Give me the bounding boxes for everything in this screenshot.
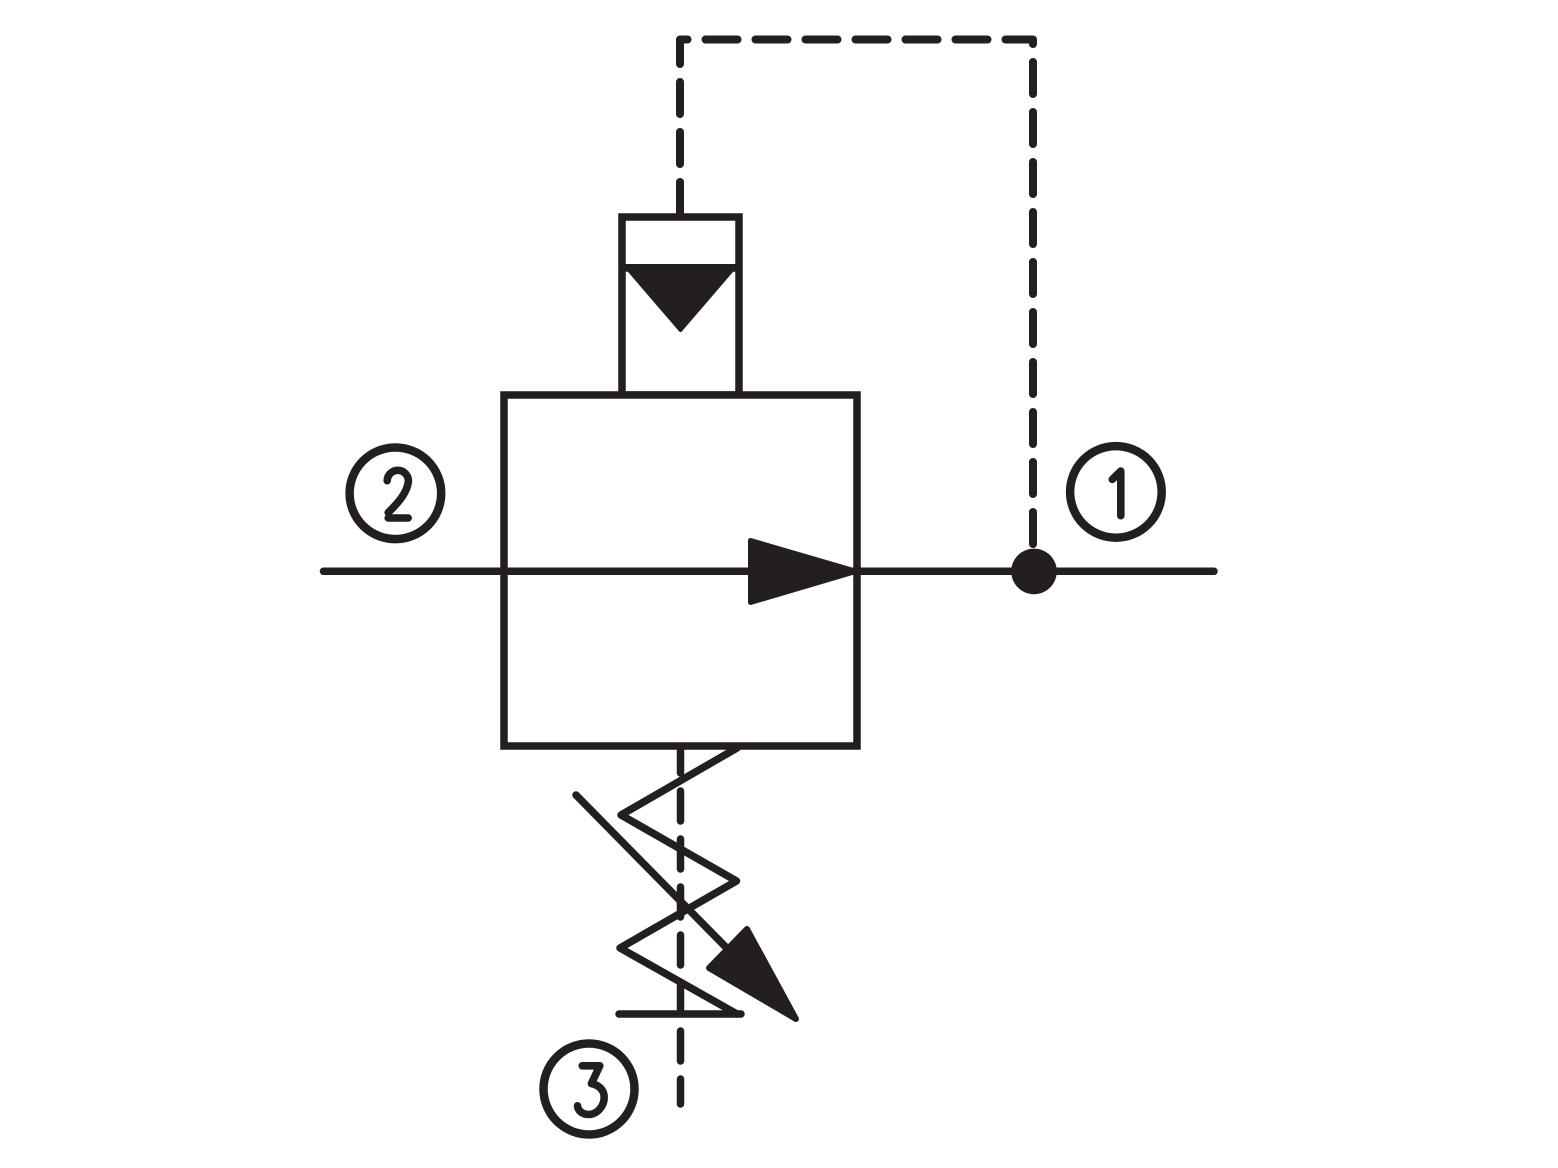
port circle 3 [544, 1044, 635, 1135]
label digit 2 [387, 470, 408, 518]
pilot poppet (filled triangle, points down) [626, 266, 736, 330]
wire: main flow line from port 2 to port 1 [324, 568, 1215, 576]
pilot valve cap box [622, 217, 739, 395]
label digit 1 [1112, 471, 1121, 516]
flow direction arrow (filled, points right) [751, 541, 857, 603]
port circle 1 [1070, 446, 1162, 538]
adjustment arrow head (filled) [709, 929, 796, 1019]
adjustment arrow shaft (diagonal through spring) [576, 795, 770, 992]
label digit 3 [578, 1066, 605, 1115]
spring bottom end line [619, 1010, 741, 1018]
spring (zigzag) [620, 748, 737, 1014]
node 1 junction dot [1011, 549, 1057, 595]
wire: dashed pilot line from pilot cap up, across, down to node 1 [680, 40, 1033, 554]
pilot seat line [622, 264, 739, 272]
wire: dashed drain center line below valve [677, 748, 685, 1104]
valve main body box [504, 395, 857, 746]
port circle 2 [350, 448, 442, 540]
